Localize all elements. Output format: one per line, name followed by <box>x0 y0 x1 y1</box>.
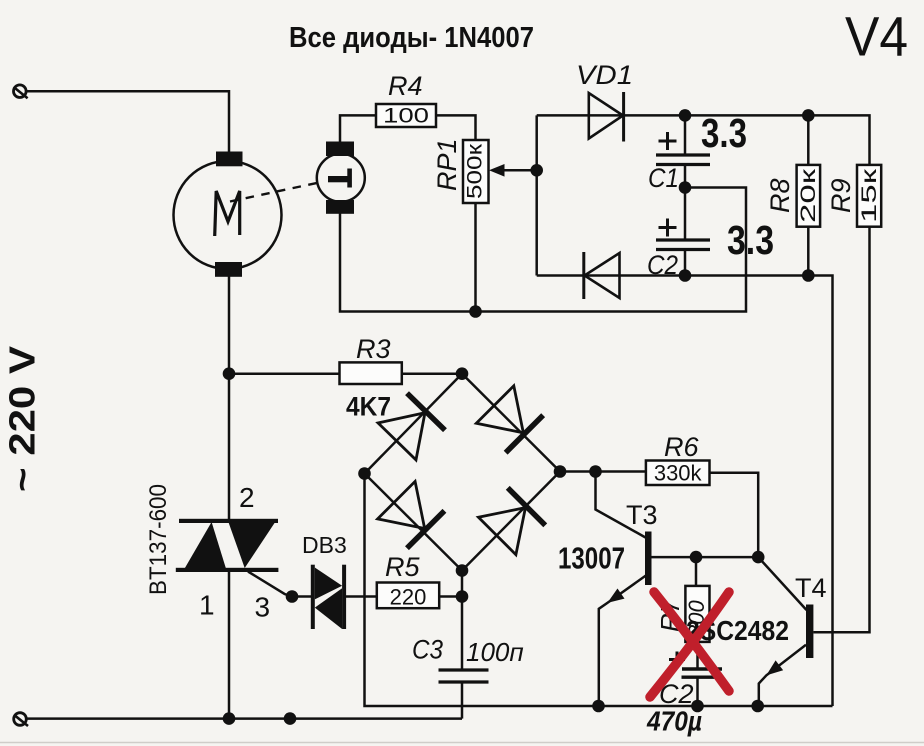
svg-text:T3: T3 <box>626 500 658 530</box>
wire R4 to RP1 top <box>436 115 476 140</box>
wire bridge bottom to C3 <box>461 571 464 669</box>
junction T3 collector node <box>589 465 602 478</box>
junction R8 top <box>802 109 815 122</box>
RP1 wiper arrow <box>502 169 537 172</box>
svg-text:100: 100 <box>383 104 429 128</box>
wire bottom AC line <box>26 717 462 720</box>
red cross-out mark <box>650 592 729 697</box>
junction RP1 bottom <box>469 305 482 318</box>
wire tacho top to R4 <box>340 115 376 141</box>
diode VD2 <box>585 253 620 298</box>
svg-text:V4: V4 <box>845 5 908 68</box>
title <box>289 22 534 54</box>
transistor T3 <box>645 532 652 586</box>
bridge diode top-left <box>378 391 447 460</box>
svg-text:C3: C3 <box>412 635 443 665</box>
wire tacho bottom to RP1 bottom and C1C2 midpoint <box>340 188 746 312</box>
bridge diode bottom-right <box>478 486 547 555</box>
transistor T4 <box>806 605 813 659</box>
wire R9 bottom to T4 base <box>813 227 869 633</box>
junction R8 bottom <box>802 269 815 282</box>
wire R6 right down to T3 base <box>710 473 759 557</box>
junction C2 bottom <box>679 269 692 282</box>
wire triac gate <box>248 572 311 597</box>
wire bridge right to R6 <box>560 470 646 473</box>
junction R5/C3 node <box>456 590 469 603</box>
resistor R9 <box>857 165 881 227</box>
mains label ~220V <box>2 346 43 492</box>
potentiometer RP1 <box>463 140 489 203</box>
capacitor C2 <box>656 238 710 241</box>
svg-text:VD1: VD1 <box>576 60 633 90</box>
capacitor C3 <box>439 668 489 671</box>
wire lower rail through VD2 <box>537 276 833 707</box>
node bridge minus <box>358 467 371 480</box>
svg-text:20к: 20к <box>796 168 820 223</box>
junction T3 base/T4 collector <box>752 551 765 564</box>
svg-text:100п: 100п <box>466 637 524 667</box>
bridge diode top-right <box>476 386 545 455</box>
motor M1 <box>174 161 282 269</box>
svg-text:15к: 15к <box>857 168 881 223</box>
svg-text:R5: R5 <box>385 552 420 582</box>
svg-text:R8: R8 <box>765 178 795 213</box>
wire top from terminal to motor <box>26 91 229 151</box>
junction C2 bottom rail <box>691 700 704 713</box>
resistor R5 <box>377 583 439 609</box>
junction T3 emitter rail <box>592 700 605 713</box>
svg-text:BT137-600: BT137-600 <box>145 484 172 595</box>
svg-text:500к: 500к <box>463 143 487 199</box>
photo edge shadow line <box>0 742 924 744</box>
svg-text:R6: R6 <box>664 432 699 462</box>
svg-text:RP1: RP1 <box>432 138 462 191</box>
terminal bottom-left <box>14 713 27 726</box>
junction motor/R3 node <box>223 367 236 380</box>
resistor R8 <box>797 165 821 227</box>
svg-text:3: 3 <box>255 592 271 623</box>
wire top rail through VD1 <box>537 115 870 164</box>
wire triac to bottom <box>228 572 231 719</box>
resistor R7 (crossed out) <box>695 557 698 586</box>
triac VS1 BT137-600 <box>179 519 278 523</box>
node bridge AC top <box>456 367 469 380</box>
resistor R3 <box>340 362 402 384</box>
wire RP1 bottom lead <box>474 203 477 312</box>
svg-text:C2: C2 <box>647 250 678 280</box>
version label V4 <box>845 5 908 68</box>
svg-text:1: 1 <box>199 590 215 621</box>
junction triac gate <box>286 590 299 603</box>
junction T4 emitter rail <box>751 700 764 713</box>
capacitor C1 <box>684 115 687 155</box>
junction T3 base/R7 <box>690 551 703 564</box>
svg-text:C1: C1 <box>648 163 679 193</box>
svg-text:220: 220 <box>390 585 427 610</box>
node wiper bus <box>535 115 538 275</box>
junction triac to AC line <box>223 712 236 725</box>
wire motor to triac <box>228 277 231 520</box>
svg-text:R4: R4 <box>388 71 423 101</box>
resistor R4 <box>376 104 436 127</box>
junction C1-C2 midpoint <box>679 181 692 194</box>
svg-text:R3: R3 <box>356 334 391 364</box>
svg-text:3.3: 3.3 <box>727 217 774 263</box>
svg-text:3.3: 3.3 <box>701 110 747 156</box>
svg-text:DB3: DB3 <box>302 532 347 558</box>
junction RP1 wiper bus <box>530 164 543 177</box>
tachogenerator T <box>317 154 365 202</box>
dashed link motor-tacho <box>230 183 319 202</box>
svg-text:2: 2 <box>239 482 255 513</box>
diode VD1 <box>589 93 623 139</box>
svg-text:13007: 13007 <box>558 541 625 576</box>
diode bridge wires <box>365 374 463 474</box>
wire bridge left corner to bottom rail <box>365 474 833 707</box>
terminal top-left <box>13 85 26 98</box>
svg-text:4K7: 4K7 <box>346 392 391 422</box>
bridge diode bottom-left <box>378 481 447 550</box>
svg-text:330k: 330k <box>654 461 703 486</box>
svg-text:T4: T4 <box>795 573 827 603</box>
svg-text:~ 220 V: ~ 220 V <box>2 346 43 492</box>
svg-text:R9: R9 <box>826 178 856 213</box>
junction on AC line <box>284 712 297 725</box>
diac DB3 <box>311 565 315 629</box>
capacitor C2 electrolytic (crossed out) <box>696 642 699 670</box>
svg-text:Все диоды- 1N4007: Все диоды- 1N4007 <box>289 22 534 54</box>
node bridge AC bottom <box>456 564 469 577</box>
junction C1 top <box>679 109 692 122</box>
node bridge plus <box>554 465 567 478</box>
wire DB3 to R5 <box>346 595 377 598</box>
resistor R6 <box>646 461 710 486</box>
